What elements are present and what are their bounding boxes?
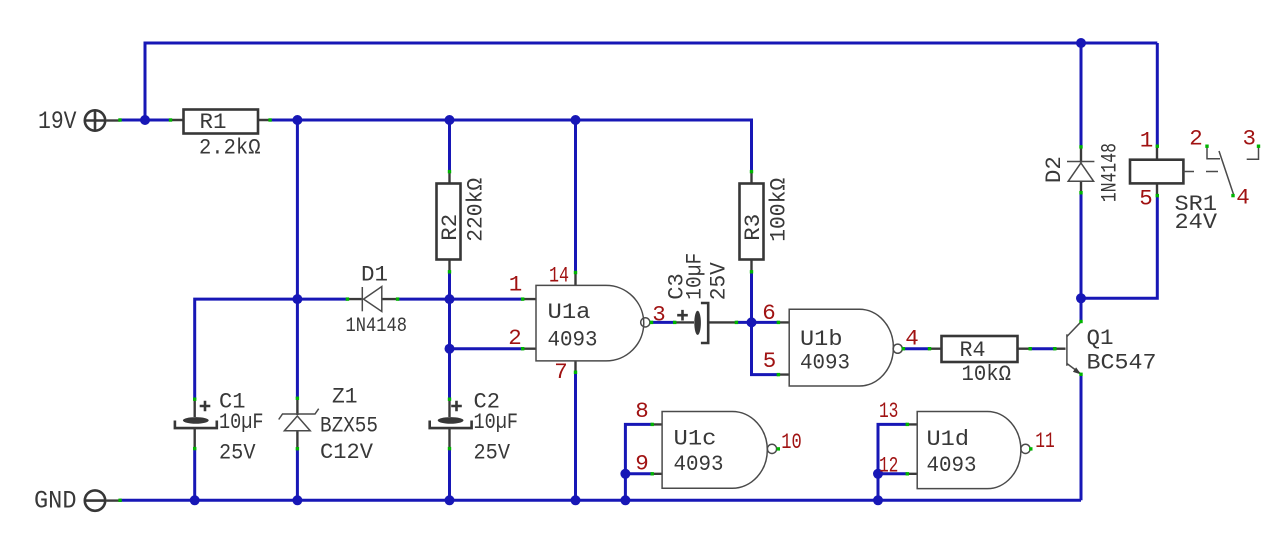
svg-text:2: 2 — [508, 325, 522, 351]
wire top rail to D2 top — [1080, 43, 1083, 147]
junction U1a pin14 rail — [571, 115, 581, 125]
green pin connection dots — [118, 118, 1260, 502]
node U1d pin11 — [1029, 447, 1032, 450]
svg-text:25V: 25V — [706, 262, 732, 300]
resistor R2 — [437, 172, 489, 272]
node U1a pin3 — [650, 321, 653, 324]
svg-text:4: 4 — [1236, 185, 1250, 211]
node Z1 top — [296, 397, 299, 400]
svg-text:R4: R4 — [960, 337, 986, 363]
node R2 top — [448, 170, 451, 173]
svg-text:U1b: U1b — [800, 326, 843, 352]
node C2 bottom — [448, 447, 451, 450]
junction GND U1c — [620, 495, 630, 505]
svg-text:12: 12 — [879, 453, 899, 479]
resistor R3 — [740, 172, 792, 272]
wire 19V to R1 — [120, 119, 170, 122]
svg-text:24V: 24V — [1175, 209, 1218, 235]
node U1c pin10 — [777, 447, 780, 450]
diode D1 1N4148 — [346, 262, 408, 338]
svg-text:3: 3 — [1243, 126, 1257, 152]
wire U1b output to R4 — [903, 347, 929, 350]
wire R3 bottom down to U1b pin5 — [752, 272, 779, 375]
node R1 left — [169, 118, 172, 121]
capacitor C3 10uF 25V — [664, 253, 737, 343]
svg-text:1N4148: 1N4148 — [346, 315, 408, 338]
node U1b pin6 — [777, 321, 780, 324]
node U1b pin5 — [777, 373, 780, 376]
node Q1 collector — [1079, 320, 1082, 323]
node U1c pin8 — [651, 423, 654, 426]
node SR1 pin1 — [1156, 145, 1159, 148]
node R3 bottom — [750, 270, 753, 273]
wire C1 bottom to GND — [193, 449, 196, 501]
node C1 top — [193, 398, 196, 401]
node U1c pin9 — [651, 472, 654, 475]
node SR1 pin2 — [1205, 145, 1208, 148]
junction U1d pin12 — [873, 469, 883, 479]
node R4 right — [1029, 347, 1032, 350]
svg-text:2: 2 — [1189, 126, 1203, 152]
svg-text:R3: R3 — [740, 214, 766, 241]
wire top rail corner down to relay coil pin1 — [1156, 43, 1159, 146]
wire D2 bottom to Q1 collector — [1080, 193, 1083, 322]
node U1a pin2 — [521, 347, 524, 350]
svg-text:25V: 25V — [219, 440, 256, 466]
node U1a pin7 — [574, 371, 577, 374]
svg-text:1: 1 — [1140, 128, 1154, 154]
wire U1d pin13 loop to GND — [878, 424, 907, 500]
relay SR1 contact pins 2 3 4 — [1189, 126, 1258, 211]
junction C3 R3 U1b node — [747, 317, 757, 327]
junction U1a pin2 net — [445, 344, 455, 354]
wire C1 top up and right to D1 — [195, 299, 348, 399]
svg-text:9: 9 — [635, 451, 649, 477]
junction top rail D2 — [1076, 38, 1086, 48]
svg-text:19V: 19V — [38, 107, 77, 136]
node D2 bottom — [1079, 191, 1082, 194]
svg-text:220kΩ: 220kΩ — [462, 178, 488, 242]
junction Z1 branch D1 net — [292, 294, 302, 304]
svg-text:1: 1 — [509, 272, 523, 298]
nand gate U1a 4093 — [508, 263, 666, 385]
nand gate U1b 4093 — [762, 300, 919, 386]
node U1a pin1 — [521, 297, 524, 300]
junction GND U1d — [873, 495, 883, 505]
junction collector node — [1076, 293, 1086, 303]
wire branch down to U1a pin14 — [574, 120, 577, 273]
wire C2 bottom to GND — [448, 449, 451, 501]
transistor Q1 BC547 — [1055, 322, 1157, 376]
svg-text:U1c: U1c — [674, 425, 717, 451]
svg-text:3: 3 — [652, 302, 666, 328]
node C2 top — [448, 398, 451, 401]
svg-text:4093: 4093 — [674, 451, 724, 477]
svg-text:6: 6 — [762, 300, 776, 326]
junction at 19V rail — [140, 115, 150, 125]
svg-text:4093: 4093 — [800, 350, 850, 376]
svg-text:BZX55: BZX55 — [320, 412, 378, 438]
svg-text:13: 13 — [879, 398, 899, 424]
supply symbol 19V — [38, 107, 120, 136]
wire R4 to Q1 base — [1030, 347, 1055, 350]
wire Q1 emitter to GND — [1080, 374, 1083, 500]
wire R1 right along main rail to R3 branch corner — [271, 120, 752, 172]
nand gate U1d 4093 — [879, 398, 1055, 489]
svg-text:Q1: Q1 — [1087, 325, 1114, 351]
node C1 bottom — [193, 447, 196, 450]
svg-text:25V: 25V — [474, 440, 511, 466]
junction GND C2 — [445, 495, 455, 505]
capacitor C1 10uF 25V — [175, 388, 264, 465]
wire U1a pin7 to GND — [574, 372, 577, 500]
node D1 left — [346, 297, 349, 300]
wire U1c pin8 loop to GND — [625, 424, 652, 500]
nand gate U1c 4093 — [635, 398, 802, 488]
ground symbol GND — [34, 487, 120, 516]
node Q1 emitter — [1079, 373, 1082, 376]
svg-text:Z1: Z1 — [332, 384, 358, 410]
wire D1 to U1a pin1 — [398, 298, 523, 301]
wire R2 bottom down to C2 top — [448, 272, 451, 399]
node SR1 pin5 — [1156, 194, 1159, 197]
svg-text:11: 11 — [1035, 428, 1055, 454]
svg-text:R1: R1 — [200, 109, 227, 135]
wire node to U1a pin2 — [450, 347, 523, 350]
wire U1c pin9 stub — [625, 472, 652, 475]
svg-text:10kΩ: 10kΩ — [962, 361, 1012, 387]
svg-text:2.2kΩ: 2.2kΩ — [199, 135, 261, 161]
svg-text:5: 5 — [1139, 186, 1153, 212]
diode D2 1N4148 — [1041, 143, 1123, 202]
junction U1c pin9 — [620, 469, 630, 479]
junction GND C1 — [190, 495, 200, 505]
node Q1 base — [1053, 347, 1056, 350]
svg-text:10µF: 10µF — [681, 253, 707, 300]
node C3 right — [735, 321, 738, 324]
node R2 bottom — [448, 270, 451, 273]
svg-text:10: 10 — [781, 429, 802, 455]
wire top rail V+ net — [145, 43, 1157, 120]
node 19V pin — [118, 118, 121, 121]
node D2 top — [1079, 145, 1082, 148]
node U1d pin12 — [906, 472, 909, 475]
svg-text:BC547: BC547 — [1087, 350, 1157, 376]
node SR1 pin4 — [1231, 194, 1234, 197]
node U1a pin14 — [574, 271, 577, 274]
svg-text:D2: D2 — [1041, 156, 1067, 183]
junction R1 right — [292, 115, 302, 125]
node D1 right — [396, 297, 399, 300]
node R4 left — [928, 347, 931, 350]
resistor R4 — [930, 336, 1031, 387]
svg-text:100kΩ: 100kΩ — [765, 178, 791, 242]
svg-text:GND: GND — [34, 487, 77, 516]
node R3 top — [750, 170, 753, 173]
node R1 right — [268, 118, 271, 121]
node GND pin — [118, 499, 121, 502]
relay SR1 24V coil — [1130, 128, 1218, 236]
junction GND Z1 — [292, 495, 302, 505]
wire branch down through R2 top — [448, 120, 451, 172]
svg-text:U1a: U1a — [548, 299, 591, 325]
capacitor C2 10uF 25V — [430, 388, 518, 465]
junction R2 top rail — [445, 115, 455, 125]
node C3 left — [673, 321, 676, 324]
wire U1a output to C3 plus — [652, 321, 675, 324]
svg-text:5: 5 — [763, 348, 777, 374]
zener diode Z1 BZX55 C12V — [279, 384, 378, 465]
svg-text:8: 8 — [635, 398, 649, 424]
svg-text:14: 14 — [549, 263, 569, 289]
svg-text:1N4148: 1N4148 — [1097, 143, 1123, 202]
svg-text:10µF: 10µF — [474, 409, 519, 435]
svg-text:U1d: U1d — [927, 426, 970, 452]
wire collector node to relay coil pin5 — [1081, 196, 1157, 299]
node U1b pin4 — [902, 347, 905, 350]
svg-text:R2: R2 — [437, 214, 463, 241]
svg-text:4: 4 — [905, 325, 919, 351]
wire GND rail — [120, 499, 1081, 502]
svg-text:4093: 4093 — [548, 327, 598, 353]
node SR1 pin3 — [1257, 145, 1260, 148]
junction GND U1a pin7 — [571, 495, 581, 505]
svg-text:10µF: 10µF — [219, 409, 264, 435]
svg-text:D1: D1 — [361, 262, 388, 288]
resistor R1 — [171, 109, 271, 160]
node Z1 bottom — [296, 447, 299, 450]
svg-text:7: 7 — [554, 359, 568, 385]
wire C3 minus to U1b pin6 — [736, 321, 778, 324]
junction R2 branch D1 net — [445, 294, 455, 304]
wire Z1 bottom to GND — [296, 449, 299, 501]
wire branch down to Z1 top — [296, 120, 299, 398]
svg-text:4093: 4093 — [927, 452, 977, 478]
svg-text:C12V: C12V — [320, 439, 373, 465]
node U1d pin13 — [906, 423, 909, 426]
wire U1d pin12 stub — [878, 472, 907, 475]
